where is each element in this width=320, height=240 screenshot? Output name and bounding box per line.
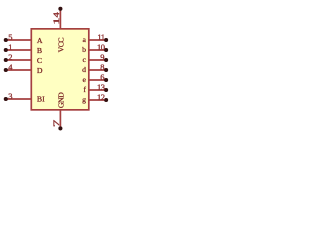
- wire pin 1 (B): [6, 49, 31, 51]
- pin 8 (segment output d): [90, 62, 109, 72]
- svg-text:b: b: [82, 45, 86, 54]
- svg-text:11: 11: [97, 32, 104, 42]
- wire pin 14 (VCC): [59, 9, 61, 28]
- svg-text:5: 5: [8, 32, 12, 42]
- svg-text:B: B: [37, 46, 42, 55]
- pin 13 (segment output f): [90, 82, 109, 92]
- wire pin 3 (BI): [6, 98, 31, 100]
- junction dot pin 13: [104, 88, 108, 92]
- junction dot pin 2: [4, 58, 8, 62]
- pin 5 (input A): [4, 32, 31, 42]
- wire pin 7 (GND): [59, 110, 61, 128]
- svg-text:a: a: [83, 35, 87, 44]
- wire pin 13 (f): [90, 89, 107, 91]
- svg-text:f: f: [83, 85, 86, 94]
- wire pin 2 (C): [6, 59, 31, 61]
- wire pin 9 (c): [90, 59, 107, 61]
- svg-text:12: 12: [97, 92, 105, 102]
- svg-text:13: 13: [97, 82, 105, 92]
- svg-text:GND: GND: [57, 92, 66, 108]
- svg-text:7: 7: [51, 120, 61, 127]
- svg-text:8: 8: [100, 62, 104, 72]
- pin 12 (segment output g): [90, 92, 109, 102]
- IC body U1 (BCD to 7-segment decoder outline): [31, 29, 89, 110]
- wire pin 4 (D): [6, 69, 31, 71]
- svg-text:6: 6: [100, 72, 104, 82]
- junction dot pin 10: [104, 48, 108, 52]
- wire pin 10 (b): [90, 49, 107, 51]
- pin 6 (segment output e): [90, 72, 109, 82]
- wire pin 6 (e): [90, 79, 107, 81]
- svg-text:c: c: [83, 55, 87, 64]
- pin 1 (input B): [4, 42, 31, 52]
- svg-text:3: 3: [8, 91, 12, 101]
- svg-text:VCC: VCC: [57, 38, 66, 53]
- svg-text:BI: BI: [37, 95, 45, 104]
- svg-text:1: 1: [51, 17, 61, 24]
- svg-text:4: 4: [8, 62, 13, 72]
- junction dot pin 1: [4, 48, 8, 52]
- wire pin 12 (g): [90, 99, 107, 101]
- svg-text:e: e: [83, 75, 87, 84]
- junction dot pin 3: [4, 97, 8, 101]
- svg-text:2: 2: [8, 52, 12, 62]
- junction dot pin 11: [104, 38, 108, 42]
- pin 10 (segment output b): [90, 42, 109, 52]
- svg-text:D: D: [37, 66, 43, 75]
- junction dot pin 9: [104, 58, 108, 62]
- svg-text:A: A: [37, 36, 43, 45]
- pin 2 (input C): [4, 52, 31, 62]
- svg-text:d: d: [82, 65, 86, 74]
- pin 11 (segment output a): [90, 32, 109, 42]
- junction dot pin 6: [104, 78, 108, 82]
- pin 7 (GND power, bottom): [51, 110, 62, 130]
- junction dot pin 12: [104, 98, 108, 102]
- svg-text:10: 10: [97, 42, 105, 52]
- pin 4 (input D): [4, 62, 31, 72]
- wire pin 5 (A): [6, 39, 31, 41]
- svg-text:g: g: [82, 95, 86, 104]
- pin 3 (blanking input BI): [4, 91, 31, 101]
- junction dot pin 4: [4, 68, 8, 72]
- wire pin 8 (d): [90, 69, 107, 71]
- svg-text:C: C: [37, 56, 42, 65]
- svg-text:1: 1: [8, 42, 12, 52]
- pin 9 (segment output c): [90, 52, 109, 62]
- wire pin 11 (a): [90, 39, 107, 41]
- junction dot pin 5: [4, 38, 8, 42]
- pin 14 (VCC power, top): [51, 7, 62, 28]
- junction dot pin 7: [58, 126, 62, 130]
- junction dot pin 14: [58, 7, 62, 11]
- svg-text:9: 9: [100, 52, 104, 62]
- junction dot pin 8: [104, 68, 108, 72]
